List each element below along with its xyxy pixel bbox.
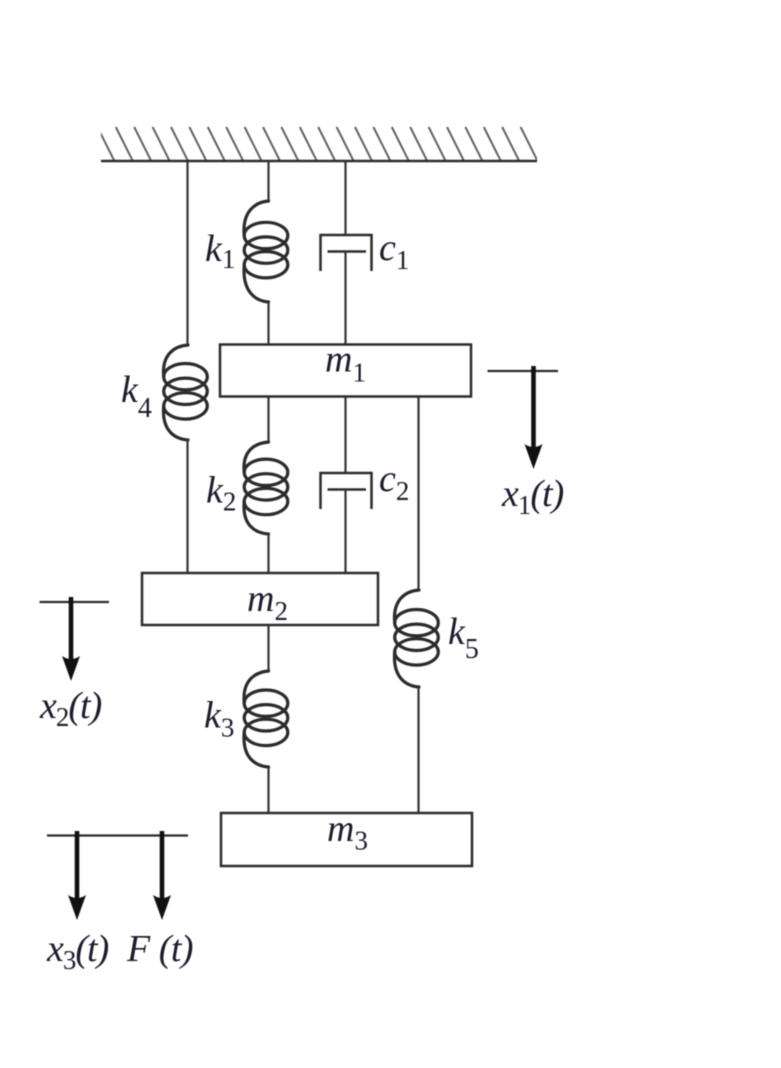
svg-text:k1: k1	[205, 228, 235, 274]
svg-text:x1(t): x1(t)	[501, 473, 564, 520]
svg-text:c1: c1	[379, 227, 409, 275]
svg-text:c2: c2	[379, 458, 409, 506]
svg-text:k5: k5	[448, 611, 479, 665]
svg-text:F (t): F (t)	[126, 928, 193, 970]
svg-text:k3: k3	[204, 695, 234, 743]
svg-text:k2: k2	[206, 470, 236, 517]
svg-text:x2(t): x2(t)	[39, 685, 102, 732]
svg-text:k4: k4	[121, 369, 152, 424]
svg-text:x3(t): x3(t)	[46, 928, 109, 975]
